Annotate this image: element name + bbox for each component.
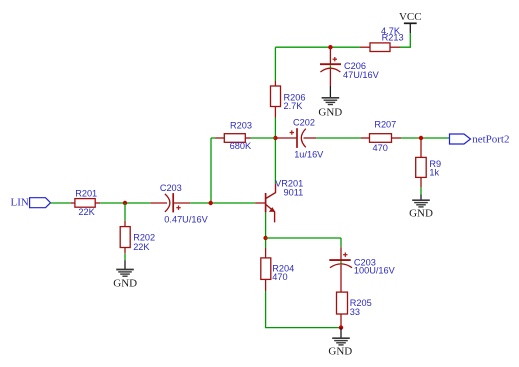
svg-text:22K: 22K [133,242,150,252]
svg-text:R202: R202 [133,232,155,242]
wire R203 left vertical [210,138,212,203]
svg-text:R201: R201 [75,189,97,199]
svg-text:1k: 1k [429,168,439,178]
node top rail / C206 junction [328,45,332,49]
resistor R202 22K [120,203,155,253]
svg-text:100U/16V: 100U/16V [354,266,396,276]
svg-text:470: 470 [373,143,388,153]
svg-text:1u/16V: 1u/16V [294,149,324,159]
wire R206 down to middle junction and on to collector [274,118,276,184]
wire VCC stem to top rail corner [400,33,410,47]
svg-text:0.47U/16V: 0.47U/16V [164,214,208,224]
resistor R201 22K [71,189,101,218]
wire C202 to R207 [316,137,361,139]
wire R204 to bottom rail [266,291,341,328]
svg-text:GND: GND [328,345,352,357]
resistor R203 680K [216,121,252,151]
node emitter junction [263,236,267,240]
ground GND under R9 [409,194,433,219]
port LIN [11,197,51,209]
wire emitter column down [265,212,267,248]
resistor R9 1k [416,140,441,188]
port netPort2 [450,134,510,146]
node R207/R9 junction [419,136,423,140]
wire emitter junction to C203 [266,237,341,239]
node R201/R202 junction [123,201,127,205]
node bottom rail junction [339,325,343,329]
svg-text:470: 470 [272,272,287,282]
resistor R204 470 [261,248,294,291]
svg-text:R203: R203 [230,121,252,131]
resistor R207 470 [361,120,401,154]
wire down to C203 top [340,238,342,247]
wire R203 to junction [251,137,276,139]
capacitor C203 0.47U/16V [150,183,208,224]
svg-text:R207: R207 [374,120,396,130]
wire R202 to ground [124,253,126,260]
capacitor C203 100U/16V [329,247,395,292]
wire R207 to port netPort2 [401,137,450,139]
node C203/R203 junction [209,201,213,205]
svg-text:47U/16V: 47U/16V [343,70,380,80]
svg-text:680K: 680K [230,141,252,151]
svg-text:9011: 9011 [284,188,304,198]
svg-text:VCC: VCC [399,11,422,23]
resistor R213 [360,26,404,52]
wire top rail down to R206 [274,47,276,81]
transistor VR201 9011 [255,179,303,223]
svg-text:22K: 22K [78,207,95,217]
svg-text:33: 33 [350,307,360,317]
ground GND under C206 [318,86,342,118]
wire R201 to C203 [100,202,150,204]
svg-text:C203: C203 [160,183,182,193]
ground GND bottom [328,328,352,358]
capacitor C206 47U/16V [320,49,380,87]
wire LIN to R201 [51,202,71,204]
svg-text:netPort2: netPort2 [472,134,509,146]
wire top rail [275,46,360,48]
wire R203 left horizontal [211,137,216,139]
node middle row junction [273,136,277,140]
resistor R205 33 [337,292,372,328]
resistor R206 2.7K [271,81,306,118]
svg-text:R213: R213 [382,33,404,43]
ground GND under R202 [113,260,137,290]
VCC power symbol [399,11,422,33]
svg-text:GND: GND [113,278,137,290]
wire R9 to ground [420,187,422,194]
svg-text:2.7K: 2.7K [284,101,304,111]
svg-text:GND: GND [409,207,433,219]
wire C203 to base junction [190,202,255,204]
svg-text:C202: C202 [293,118,315,128]
svg-text:GND: GND [318,106,342,118]
capacitor C202 1u/16V [277,118,324,160]
svg-text:LIN: LIN [11,197,29,209]
